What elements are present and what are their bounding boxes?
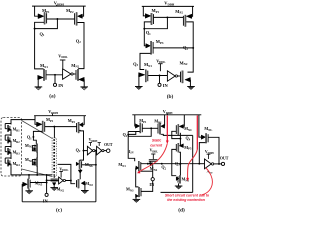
port IN (c)	[45, 193, 48, 196]
transistor R2 (c)	[10, 132, 12, 136]
junction node (d)	[150, 127, 152, 129]
svg-text:OUT: OUT	[104, 143, 113, 147]
svg-text:Static: Static	[152, 138, 161, 142]
inverter INV1 (b)	[167, 71, 175, 81]
wire bottom feedback wire (c)	[22, 201, 96, 203]
transistor MP1 (c)	[37, 122, 43, 127]
transistor MP2 (a)	[76, 12, 77, 25]
wire OUT line (c)	[84, 150, 88, 152]
wire MP1 drain to MP2 gate (a)	[47, 18, 75, 20]
wire MN2 source to ground (a)	[83, 80, 85, 87]
port IN (a)	[53, 83, 56, 86]
wire feedback L to stack (c)	[58, 164, 71, 180]
svg-text:(c): (c)	[56, 206, 62, 213]
svg-text:IN: IN	[163, 83, 169, 88]
wire MN6 source arrow down (c)	[78, 170, 82, 173]
inverter INV1 (a)	[63, 69, 71, 80]
wire bias line (c)	[22, 174, 52, 176]
red weak current curve (d)	[138, 144, 167, 173]
svg-text:(a): (a)	[49, 92, 55, 99]
transistor MN1 (d)	[138, 161, 139, 171]
ground MN2 (b)	[187, 86, 195, 88]
wire VDDH rail (b)	[142, 5, 194, 7]
wire MP1 drain to MP2 gate (c)	[45, 126, 77, 128]
transistor MN3 (d)	[138, 187, 139, 197]
wire cross-couple loop (d)	[128, 128, 151, 136]
wire MP1 source stub (d)	[134, 115, 137, 126]
wire MP1 gate loop (b)	[144, 22, 151, 29]
wire MN2b source to ground (c)	[84, 183, 86, 190]
wire MP1 source stub (b)	[143, 6, 145, 16]
wire VDDH rail (d)	[132, 114, 201, 116]
junction node to R stack (c)	[53, 126, 55, 128]
svg-text:(d): (d)	[178, 207, 185, 214]
transistor MP5 (d)	[179, 144, 183, 148]
svg-text:(b): (b)	[167, 93, 174, 100]
wire inverter out to MN2 gate (b)	[178, 75, 180, 77]
ground MN2 (a)	[80, 86, 88, 88]
transistor MN6 (c)	[79, 160, 80, 168]
wire Q3 down to MN6 (d)	[179, 164, 181, 176]
transistor MN2b (c)	[78, 179, 79, 188]
transistor MN4 diode (c)	[36, 158, 37, 167]
wire Q2 down to MN6 (c)	[80, 151, 83, 161]
wire MN1 source to ground (a)	[37, 78, 39, 87]
junction Q2 node (d)	[161, 163, 163, 165]
wire IN stub left (d)	[140, 170, 153, 172]
wire inverter out to MN2 gate (a)	[73, 73, 75, 75]
wire VDDH rail (c)	[34, 115, 86, 117]
transistor MN6 (d)	[179, 175, 180, 183]
wire MN1 gate / IN line (a)	[46, 74, 62, 76]
ground MN2 (c)	[50, 187, 58, 189]
wire MP1 source stub (a)	[35, 6, 38, 16]
node Q1 (c)	[32, 136, 34, 138]
wire MN5 drain stub (c)	[28, 175, 30, 179]
wire MP2 drain / Q2 vertical (a)	[77, 23, 84, 69]
wire IN riser (d)	[152, 164, 154, 178]
wire Q2 right vertical (d)	[192, 135, 194, 192]
junction IN node (b)	[159, 75, 161, 77]
wire MP3 gate to Q3 (b)	[140, 53, 151, 69]
wire Q1 down to MN3 (c)	[33, 137, 36, 144]
wire MN1 source to ground (b)	[138, 75, 140, 87]
wire MP1 source stub (c)	[35, 116, 37, 125]
transistor R4 (c)	[10, 155, 12, 159]
wire MNL drain (d)	[208, 137, 219, 164]
wire Q1 top hook (d)	[128, 131, 136, 133]
junction inverter input (c)	[46, 179, 48, 181]
wire MN6 gate (c)	[82, 164, 96, 166]
transistor R3 (c)	[10, 143, 12, 147]
node Q2 (c)	[83, 150, 85, 152]
transistor MN1 (b)	[145, 70, 146, 82]
wire MN3 gate (d)	[141, 181, 153, 192]
transistor MP1 (d)	[135, 124, 139, 128]
red contention curve right (d)	[196, 116, 198, 150]
wire to inverter input (c)	[47, 179, 59, 181]
wire MNL gate loop (d)	[199, 143, 205, 164]
transistor MP2 (c)	[78, 122, 79, 133]
wire MN3 to MN4 (c)	[36, 152, 38, 157]
ground MN2b (c)	[81, 190, 89, 192]
buffer ABUF (d)	[199, 163, 204, 165]
wire MP1 drain to MP2 gate (d)	[142, 127, 158, 129]
junction IN node (a)	[54, 74, 56, 76]
transistor MN1 (a)	[43, 69, 44, 80]
svg-text:IN: IN	[43, 198, 49, 203]
junction node (a)	[56, 18, 58, 20]
transistor MNL (d)	[199, 115, 201, 137]
junction feedback node (c)	[95, 150, 97, 152]
wire MN6 source to ground (d)	[178, 183, 180, 186]
port OUT (c)	[106, 149, 110, 153]
wire IN riser (c)	[46, 175, 48, 194]
wire Q1 to MP3 source (b)	[144, 29, 146, 46]
transistor MP1 (a)	[38, 14, 44, 19]
wire Q1 vertical (a)	[35, 29, 44, 69]
ground MN1 (a)	[35, 86, 43, 88]
wire MN5 source to ground (c)	[28, 188, 30, 190]
leader line lower (c)	[22, 169, 52, 177]
node Q1 (a)	[34, 28, 36, 30]
svg-text:current: current	[150, 143, 163, 147]
wire MN4 drain to MP5 (d)	[179, 133, 181, 146]
wire MP2 source stub (b)	[191, 6, 194, 16]
wire MN5 gate to IN riser (c)	[30, 182, 46, 184]
wire MN1 source down to MN3 (d)	[136, 168, 138, 187]
dotted resistor stack (c)	[52, 138, 56, 176]
wire chain top to supply (c)	[11, 119, 35, 122]
wire MP5 drain to Q3 (d)	[179, 152, 180, 164]
wire MN4 source down to bias line (c)	[36, 166, 38, 175]
red leader curve (d)	[202, 168, 213, 195]
svg-text:OUT: OUT	[220, 155, 229, 160]
wire MP2 source stub (d)	[164, 115, 166, 126]
wire MN3 source to ground (d)	[135, 196, 137, 199]
wire MP1 drain to MP2 gate (b)	[154, 16, 184, 18]
ground MN1 (b)	[135, 86, 143, 88]
transistor MP2 (b)	[185, 15, 186, 27]
wire MN2 source to ground (b)	[189, 80, 191, 87]
wire cross-couple loop (a)	[35, 19, 58, 29]
wire IN riser (a)	[54, 75, 56, 84]
junction MN6 gate (c)	[95, 164, 97, 166]
wire MP2 source stub (c)	[83, 116, 85, 125]
wire MP2 drain / Q2 vertical (b)	[186, 22, 193, 72]
wire to OUT port (c)	[104, 150, 107, 152]
junction output feedback (d)	[218, 163, 220, 165]
transistor MP1 (b)	[145, 14, 151, 19]
transistor MN2 under stack (c)	[53, 175, 55, 178]
svg-text:IN: IN	[58, 83, 64, 88]
wire MP3 drain to Q2 (b)	[153, 47, 193, 49]
wire MP1 gate loop (a)	[35, 22, 44, 28]
wire feedback vertical (c)	[95, 151, 97, 202]
transistor R1 (c)	[10, 120, 12, 124]
junction inverter out (d)	[147, 163, 149, 165]
wire MP2 drain to Q2 (c)	[79, 130, 83, 150]
inverter vertical (d)	[149, 159, 158, 161]
wire MP2 drain around latch (d)	[161, 134, 193, 135]
wire buffer out (d)	[214, 163, 222, 165]
leader line upper (c)	[22, 121, 52, 139]
wire node to dotted stack (c)	[53, 127, 55, 138]
node Q2 (b)	[192, 47, 194, 49]
transistor MN2 (a)	[77, 69, 78, 80]
svg-text:the existing contention: the existing contention	[167, 198, 205, 202]
transistor MP2 (d)	[159, 123, 160, 135]
wire inverter out (c)	[66, 181, 76, 184]
red static current arrow (d)	[166, 116, 168, 142]
wire MP1 gate loop (c)	[33, 131, 42, 137]
node Q1 (b)	[143, 28, 145, 30]
wire chain bottom (c)	[11, 166, 22, 175]
node Q3 (d)	[179, 163, 181, 165]
transistor MN5 (c)	[27, 179, 28, 189]
port OUT (d)	[221, 162, 224, 165]
ground MN5 (c)	[25, 190, 33, 192]
junction node (b)	[166, 16, 168, 18]
node Q1 (d)	[127, 134, 129, 136]
inverter INVL (c)	[59, 177, 64, 184]
junction buffer input (d)	[198, 163, 200, 165]
port IN (b)	[158, 83, 161, 86]
svg-text:Short circuit current due to: Short circuit current due to	[165, 194, 209, 198]
wire MN5 left loop to bottom wire (c)	[21, 184, 24, 202]
inverter buffer 1 (c)	[87, 146, 92, 155]
wire MN1 gate / IN line (b)	[148, 75, 167, 77]
transistor MP3 (b)	[146, 44, 151, 48]
wire MN1 gate / main line (d)	[141, 163, 199, 165]
wire IN riser (b)	[159, 76, 161, 84]
ground MN3 (d)	[133, 198, 141, 200]
dashed box resistor-chain detail (c)	[1, 118, 22, 176]
wire cross-couple loop (b)	[144, 17, 167, 28]
node Q4 (d)	[179, 138, 181, 140]
wire MP2 source stub (a)	[82, 6, 83, 16]
ground MN6 (d)	[175, 185, 183, 187]
transistor MN3 diode (c)	[36, 144, 37, 153]
wire MP1 gate loop (d)	[128, 132, 140, 135]
wire Q1 vertical (d)	[128, 134, 135, 161]
wire MN4 gate loop (d)	[172, 131, 181, 138]
transistor MN4 diode load (d)	[182, 115, 185, 127]
wire VDDH rail (a)	[32, 5, 86, 7]
wire MP5 gate loop down (d)	[172, 149, 177, 175]
port IN (d)	[151, 178, 154, 181]
wire Q2 bottom (d)	[161, 191, 193, 193]
transistor MN2 (b)	[182, 71, 183, 83]
inverter buffer 2 (c)	[95, 150, 97, 152]
